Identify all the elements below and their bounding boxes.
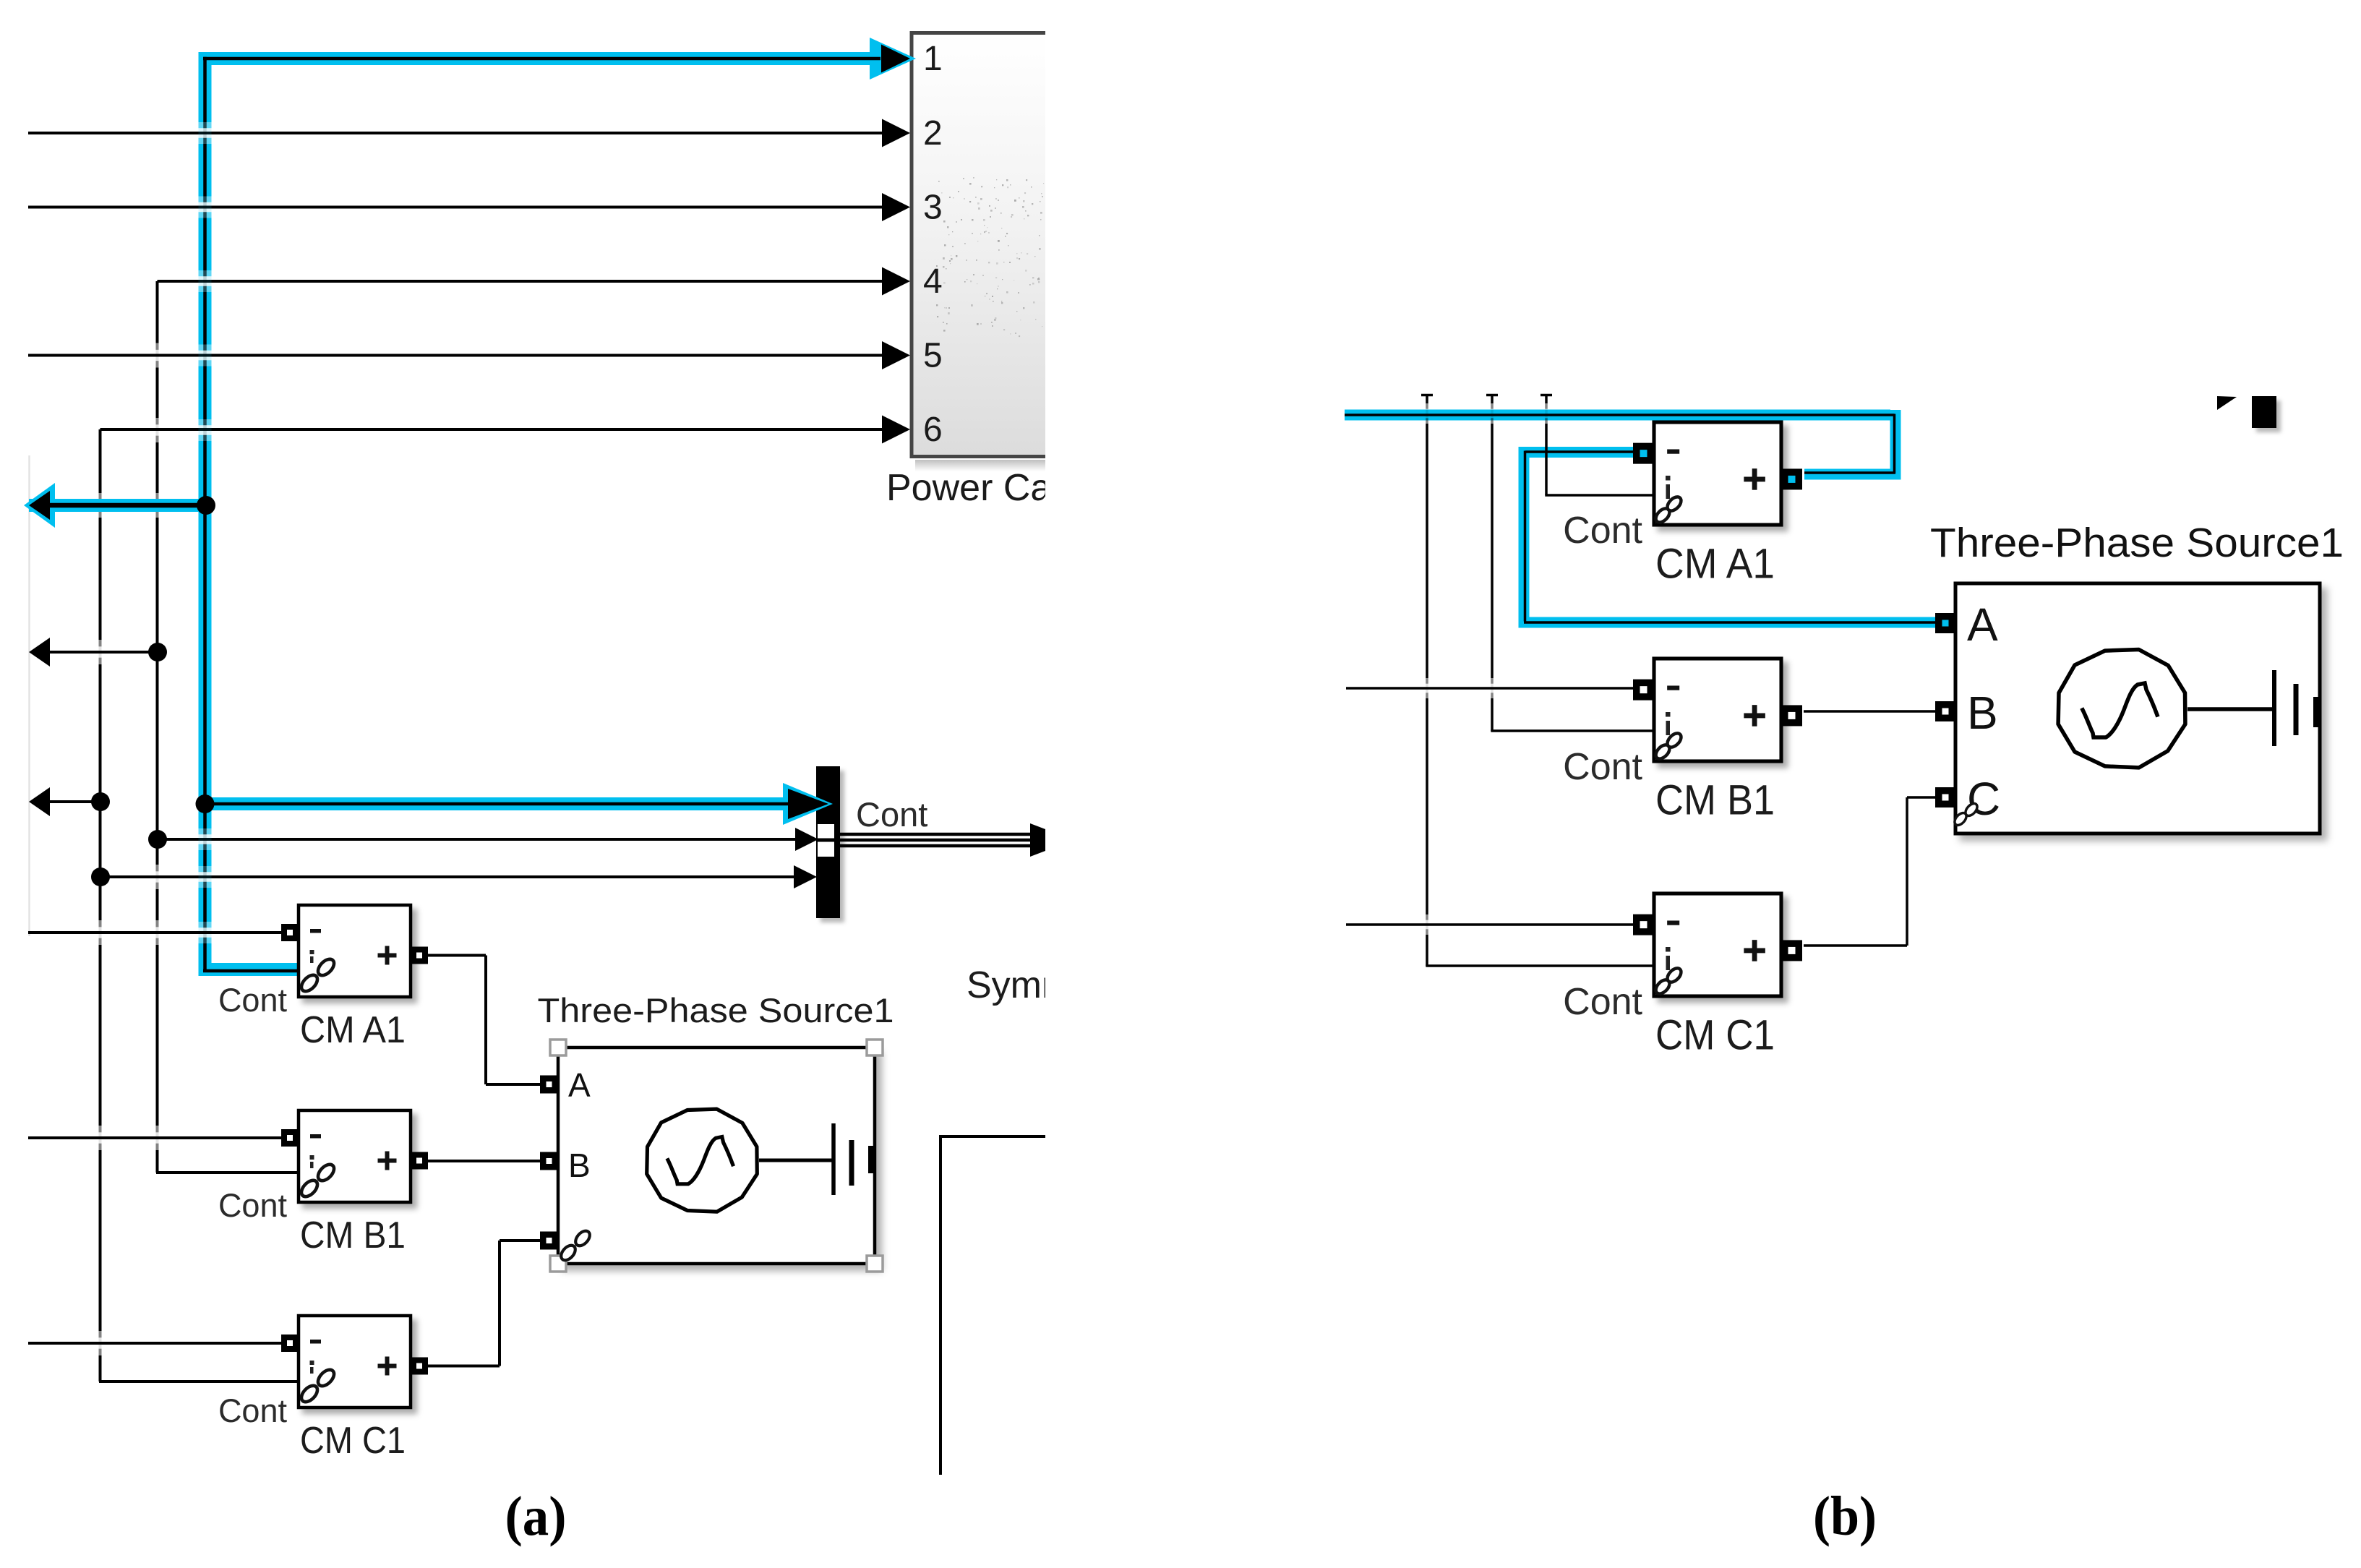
block CM C1 (b): i glyph <box>1666 947 1671 952</box>
svg-text:(b): (b) <box>1813 1485 1877 1547</box>
junction dot x=217 y=1161 <box>148 830 167 849</box>
block CM B1 (b): plus output port <box>1781 705 1802 726</box>
block CM C1 (b): minus input port <box>1633 914 1654 935</box>
wire CM C1 output to source port C <box>428 1365 500 1368</box>
svg-text:CM C1: CM C1 <box>1655 1012 1775 1059</box>
svg-text:5: 5 <box>923 337 943 375</box>
block Three-Phase Source1 (b): AC source circle <box>2058 650 2185 768</box>
wire Mux wide output (3-line vector signal) <box>840 833 1030 836</box>
block CM A1 (a): library-link chain icon <box>299 972 320 995</box>
wire CM A1 output to source port A <box>428 954 486 957</box>
panel (b): selected signal (cyan halo) top horizontal <box>1345 410 1890 421</box>
block CM B1 (b): i glyph <box>1666 712 1671 717</box>
junction dot x=138 y=1109 <box>91 792 110 811</box>
wire from x=138 junction to Mux input 3 <box>100 875 795 878</box>
block Three-Phase Source1 (a): wire circle to battery <box>759 1159 833 1162</box>
block CM C1 (a): library-link chain icon <box>299 1383 320 1405</box>
block CM C1 (b): plus symbol <box>1744 948 1765 954</box>
selected signal (black core): branch to left arrow y=699 <box>38 503 205 508</box>
block CM C1 (b): library-link chain icon <box>1653 977 1672 996</box>
selected signal (cyan halo): branch to Mux input 1 <box>205 797 785 810</box>
panel (b): cyan halo right vertical of output loop <box>1890 410 1901 474</box>
block Three-Phase Source1 (b): tick on right border <box>2313 697 2321 727</box>
block Three-Phase Source1 (a): battery short plate <box>849 1140 854 1186</box>
block CM C1 (a): plus symbol <box>378 1364 397 1368</box>
panel (b): wire vertical x=2139 with top cap, to CM A1 i-input <box>1541 394 1552 397</box>
selected signal (cyan halo): top horizontal to Power port 1 <box>199 52 874 65</box>
svg-text:Cont: Cont <box>1563 981 1642 1023</box>
panel (b): cyan core loop into + port <box>1804 471 1895 474</box>
block CM B1 (a): plus symbol <box>378 1159 397 1163</box>
panel (b): wire CM B1 output to source port B <box>1804 710 1935 713</box>
block Three-Phase Source1 (b): sine symbol <box>2083 683 2157 737</box>
block Three-Phase Source1 (b): wire circle to battery <box>2188 707 2274 711</box>
wire CM B1 output to source port B <box>428 1160 540 1162</box>
panel (b): cyan core top horizontal <box>1345 414 1895 416</box>
panel (b): wire vertical x=2064 with top cap, to CM B1 i-input <box>1486 394 1498 397</box>
block CM A1 (b): plus output port <box>1781 468 1802 489</box>
svg-text:4: 4 <box>923 262 943 301</box>
wire from left edge into CM C1 minus input <box>28 1342 281 1345</box>
svg-text:B: B <box>1967 687 1998 739</box>
junction dot on cyan wire y=699 <box>197 496 215 515</box>
wire from x=217 junction to Mux input 2 <box>158 838 797 841</box>
wire with left arrow at y=902 (to cropped left edge) <box>46 651 158 654</box>
block CM B1 (b): body <box>1654 659 1781 761</box>
block CM A1 (a): body <box>299 905 411 997</box>
wire x=217 corner to CM B1 i-input <box>156 1171 159 1173</box>
svg-text:Cont: Cont <box>218 982 288 1019</box>
selected signal (black core): branch to Mux input 1 <box>205 802 790 806</box>
svg-text:A: A <box>568 1066 591 1104</box>
block CM B1 (a): minus symbol <box>310 1134 321 1139</box>
block Three-Phase Source1 (a): port B square <box>540 1152 558 1170</box>
panel (b): cyan core bottom horizontal to port A <box>1524 621 1935 624</box>
wire from left edge into CM B1 minus input <box>28 1136 281 1139</box>
svg-text:Power Cab: Power Cab <box>886 467 1072 509</box>
block CM A1 (a): minus input port <box>281 924 299 941</box>
block Three-Phase Source1 (b): battery short plate <box>2294 684 2299 735</box>
panel (b): cropped Scope block fragment - arrow piece <box>2217 396 2237 410</box>
svg-text:CM C1: CM C1 <box>300 1420 406 1462</box>
block CM C1 (a): body <box>299 1316 411 1408</box>
block Three-Phase Source1 (b): chain icon below C <box>1953 811 1968 828</box>
block CM A1 (a): i glyph <box>310 950 314 954</box>
block CM B1 (b): minus symbol <box>1667 685 1679 690</box>
block CM B1 (b): minus input port <box>1633 680 1654 701</box>
svg-text:CM B1: CM B1 <box>300 1214 406 1256</box>
block CM B1 (b): library-link chain icon <box>1653 742 1672 761</box>
wire to Power port 6 (horizontal from corner x=138) <box>100 428 886 431</box>
panel (b): cyan core vertical x=2108 <box>1524 451 1527 622</box>
block Three-Phase Source1 (b): port A square <box>1935 613 1955 633</box>
block Three-Phase Source1 (a): selection handles <box>550 1040 566 1055</box>
junction dot x=217 y=902 <box>148 643 167 661</box>
svg-text:(a): (a) <box>505 1485 567 1547</box>
svg-text:Cont: Cont <box>1563 510 1642 552</box>
svg-text:Cont: Cont <box>1563 746 1642 788</box>
junction dot x=138 y=1213 <box>91 867 110 886</box>
block CM B1 (a): minus input port <box>281 1129 299 1147</box>
block CM A1 (b): minus symbol <box>1667 449 1679 453</box>
block CM B1 (b): plus symbol <box>1744 714 1765 719</box>
block CM A1 (b): library-link chain icon <box>1653 506 1672 525</box>
block Three-Phase Source1 (a): tick on right border <box>868 1146 876 1173</box>
selected signal (cyan halo): branch to left arrow y=699 <box>29 499 205 512</box>
svg-text:CM A1: CM A1 <box>300 1009 406 1051</box>
panel (b): wire from cropped left edge into CM B1 minus input <box>1346 687 1635 690</box>
panel (b): cyan core from - port to corner <box>1525 450 1634 453</box>
panel (b): cyan core right vertical <box>1893 414 1896 474</box>
block Three-Phase Source1 (b): port B square <box>1935 701 1955 721</box>
selected signal (black core): bottom horizontal into CM A1 <box>203 969 299 973</box>
svg-text:6: 6 <box>923 411 943 449</box>
wire x=138 corner to CM C1 i-input <box>99 1380 300 1383</box>
svg-text:A: A <box>1967 599 1998 651</box>
svg-text:B: B <box>568 1147 591 1184</box>
block Three-Phase Source1 (a): sine symbol <box>668 1137 733 1184</box>
block Three-Phase Source1 (b): body <box>1955 583 2320 834</box>
wire to Power port 4 (horizontal from corner x=217) <box>158 280 886 283</box>
block Three-Phase Source1 (a): body <box>558 1048 875 1264</box>
wire with left arrow at y=1109 <box>46 800 100 803</box>
wire to Power port 3 <box>28 206 885 209</box>
svg-text:Three-Phase Source1: Three-Phase Source1 <box>538 991 894 1029</box>
selected signal (cyan halo): bottom horizontal into CM A1 i-input <box>199 963 300 976</box>
block CM A1 (a): minus symbol <box>310 929 321 933</box>
panel (b): cyan halo vertical x=2108 <box>1519 447 1530 622</box>
block Three-Phase Source1 (a): chain icon at port C <box>558 1243 578 1263</box>
wire vertical x=217 (port4 branch down to CM B1 i-input) <box>156 281 159 343</box>
panel (b): wire CM C1 output to source port C <box>1804 944 1907 947</box>
svg-text:CM A1: CM A1 <box>1655 541 1775 588</box>
panel (b): cyan halo from CM A1 - port to corner <box>1524 447 1634 458</box>
svg-text:Cont: Cont <box>856 795 927 834</box>
svg-text:3: 3 <box>923 189 943 227</box>
block Power Calculation: faint waveform-thumbnail noise <box>936 177 1044 337</box>
svg-text:CM B1: CM B1 <box>1655 777 1775 824</box>
block CM C1 (b): plus output port <box>1781 940 1802 961</box>
block Mux: middle port notch <box>818 824 834 857</box>
block CM A1 (b): i glyph <box>1666 476 1671 481</box>
svg-text:Cont: Cont <box>218 1187 288 1224</box>
block Three-Phase Source1 (b): port C square <box>1935 787 1955 807</box>
block CM C1 (a): minus symbol <box>310 1340 321 1344</box>
svg-text:Three-Phase Source1: Three-Phase Source1 <box>1930 520 2344 566</box>
panel (a): faint cropped-edge line at left <box>28 455 30 936</box>
wire from left edge into CM A1 minus input <box>28 931 281 934</box>
block CM A1 (b): minus input port <box>1633 443 1654 464</box>
block Three-Phase Source1 (a): port A square <box>540 1076 558 1094</box>
block CM B1 (a): body <box>299 1110 411 1202</box>
svg-text:C: C <box>1967 773 2000 825</box>
selected signal (black core): vertical x=283 with crossing gaps <box>203 57 207 122</box>
block CM A1 (a): plus symbol <box>378 954 397 958</box>
block Mux (Cont bus): bar <box>816 766 840 918</box>
selected signal (cyan halo): vertical x=283 with crossing gaps <box>199 52 212 122</box>
panel (b): wire vertical x=1974 with top cap, to CM C1 i-input <box>1421 394 1433 397</box>
panel (b): cyan halo loop back into CM A1 + port <box>1804 469 1901 480</box>
svg-text:Cont: Cont <box>218 1392 288 1429</box>
block CM C1 (a): minus input port <box>281 1334 299 1352</box>
block Three-Phase Source1 (a): battery long plate <box>831 1123 836 1195</box>
junction dot on cyan wire y=1112 <box>196 794 215 813</box>
block CM C1 (a): plus output port <box>411 1358 428 1375</box>
svg-text:2: 2 <box>923 114 943 153</box>
arrowhead of Mux output (cut by crop edge) <box>1030 823 1045 857</box>
block CM C1 (b): body <box>1654 894 1781 996</box>
block Three-Phase Source1 (b): battery long plate <box>2272 670 2276 746</box>
wire vertical x=138 (port6 branch down to CM C1 i-input) <box>99 429 102 493</box>
wire to Power port 2 <box>28 132 885 134</box>
panel (b): wire from cropped left edge into CM C1 minus input <box>1346 923 1635 926</box>
block CM A1 (b): body <box>1654 422 1781 525</box>
block CM B1 (a): library-link chain icon <box>299 1178 320 1200</box>
svg-text:1: 1 <box>923 40 943 78</box>
wire cropped corner at bottom right of panel (a) <box>940 1135 1045 1138</box>
panel (b): cropped Scope block fragment - black rectangle <box>2252 396 2276 428</box>
block Three-Phase Source1 (a): AC source circle <box>647 1109 758 1212</box>
block Power Calculation (cropped): shadow under bottom edge <box>915 460 1045 471</box>
block CM A1 (a): plus output port <box>411 947 428 964</box>
wire to Power port 5 <box>28 354 885 357</box>
block CM A1 (b): plus symbol <box>1744 477 1765 482</box>
panel (b): cyan halo bottom horizontal to source port A <box>1519 617 1936 628</box>
block CM C1 (a): i glyph <box>310 1361 314 1365</box>
block CM C1 (b): minus symbol <box>1667 920 1679 925</box>
block Three-Phase Source1 (a): port C square <box>540 1232 558 1250</box>
block CM B1 (a): i glyph <box>310 1155 314 1160</box>
selected signal (black core): top horizontal <box>203 57 880 61</box>
block CM B1 (a): plus output port <box>411 1152 428 1170</box>
block Power Calculation (cropped): body with gradient fill <box>912 33 1045 457</box>
